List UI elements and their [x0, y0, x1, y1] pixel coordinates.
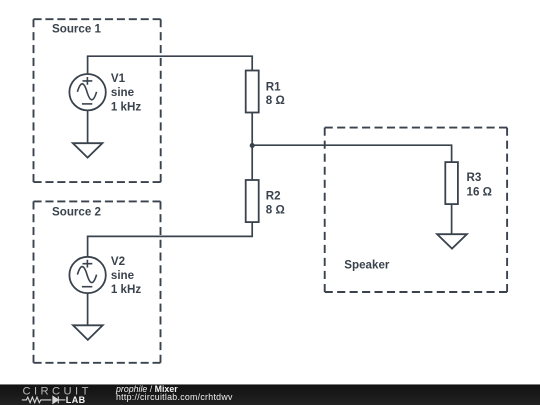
svg-text:V1: V1: [111, 72, 126, 85]
wire node A down to R2 top: [251, 145, 253, 180]
wire R2 bottom to V2 top: [88, 222, 253, 257]
svg-text:R1: R1: [266, 80, 281, 93]
footer bar: [0, 384, 540, 405]
resistor R1: [246, 71, 259, 113]
resistor R2: [246, 180, 259, 222]
svg-text:1 kHz: 1 kHz: [111, 100, 141, 113]
enclosure box Source 2: [34, 201, 161, 362]
enclosure box Source 1: [34, 19, 161, 182]
svg-text:sine: sine: [111, 269, 135, 282]
wire R1 bottom to node A: [251, 113, 253, 146]
R2 value label (R2 / 8 ohm): [266, 190, 285, 217]
wire V1 top to horizontal run: [87, 56, 89, 74]
voltage source V1: [69, 74, 105, 110]
ground GND1 (below V1): [73, 143, 103, 157]
wire V2 bottom to ground: [87, 293, 89, 325]
V1 value label (V1 / sine / 1 kHz): [111, 72, 141, 113]
svg-text:Speaker: Speaker: [344, 258, 390, 271]
R3 value label (R3 / 16 ohm): [467, 171, 492, 198]
svg-text:Source 2: Source 2: [52, 205, 101, 218]
svg-text:R2: R2: [266, 190, 281, 203]
svg-text:8 Ω: 8 Ω: [266, 204, 285, 217]
R1 value label (R1 / 8 ohm): [266, 80, 285, 107]
V2 value label (V2 / sine / 1 kHz): [111, 255, 141, 296]
svg-text:V2: V2: [111, 255, 125, 268]
wire V1 bottom to ground: [87, 110, 89, 143]
ground GND2 (below V2): [73, 325, 103, 340]
svg-text:8 Ω: 8 Ω: [266, 94, 285, 107]
svg-text:1 kHz: 1 kHz: [111, 283, 141, 296]
wire node A to R3 top: [252, 145, 451, 162]
node A (junction dot): [250, 143, 255, 148]
svg-text:R3: R3: [467, 171, 482, 184]
voltage source V2: [69, 257, 105, 293]
svg-text:sine: sine: [111, 86, 135, 99]
wire R3 bottom to ground: [451, 204, 453, 234]
enclosure box Speaker: [325, 128, 507, 292]
CircuitLab logo resistor-diode glyph: [22, 396, 66, 403]
ground GND3 (below R3): [437, 234, 467, 248]
wire horizontal V1 to R1 top: [87, 56, 252, 70]
svg-text:16 Ω: 16 Ω: [467, 185, 492, 198]
svg-text:LAB: LAB: [66, 395, 86, 405]
svg-text:Source 1: Source 1: [52, 23, 102, 36]
resistor R3: [445, 162, 458, 204]
svg-text:http://circuitlab.com/crhtdwv: http://circuitlab.com/crhtdwv: [116, 392, 233, 402]
